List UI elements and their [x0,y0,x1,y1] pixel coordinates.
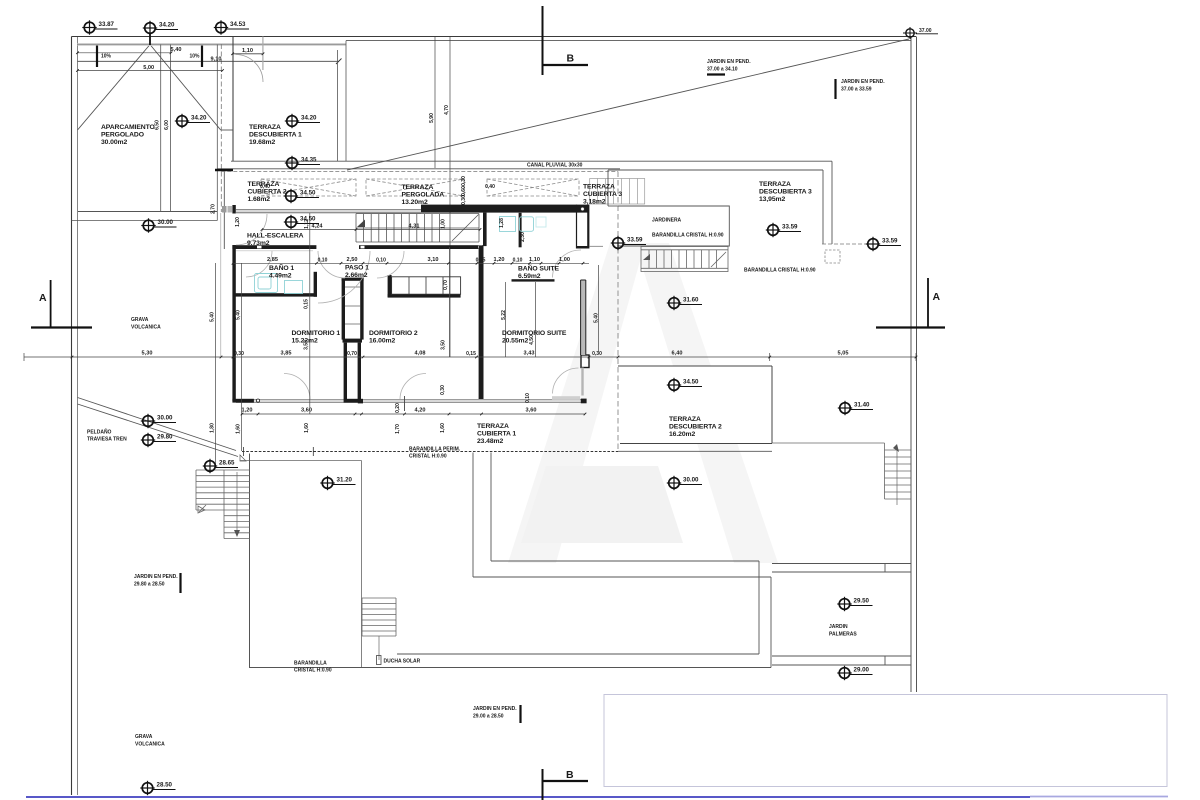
bano1 fixtures cyan [255,274,303,294]
suite west wall [479,246,484,402]
svg-text:28.65: 28.65 [219,460,235,467]
benchmark 28.50 [140,781,175,795]
svg-text:BAÑO SUITE: BAÑO SUITE [518,264,559,273]
svg-text:CANAL PLUVIAL 30x30: CANAL PLUVIAL 30x30 [527,163,583,169]
svg-text:1,60: 1,60 [304,423,310,433]
benchmark 30.00 pool [667,476,702,490]
svg-text:TRAVIESA TREN: TRAVIESA TREN [87,437,127,443]
svg-text:BARANDILLA CRISTAL H:0.90: BARANDILLA CRISTAL H:0.90 [744,268,816,274]
svg-text:31.60: 31.60 [683,297,699,304]
benchmark 31.40 [838,401,873,415]
door arcs south [284,368,579,399]
svg-text:DESCUBIERTA 2: DESCUBIERTA 2 [669,424,722,431]
svg-text:33.87: 33.87 [99,21,115,28]
svg-text:5,00: 5,00 [143,65,154,71]
terraza cubierta2 west line [223,171,225,249]
svg-text:33.59: 33.59 [882,238,898,245]
dashed level line right [822,243,869,245]
svg-text:BARANDILLA CRISTAL H:0.90: BARANDILLA CRISTAL H:0.90 [652,233,724,239]
bano suite vanity bar [512,279,555,281]
svg-text:1,60: 1,60 [236,424,242,434]
dorm2 wardrobe [388,275,461,298]
jardinera stair [641,247,728,272]
paso wardrobe [342,278,364,400]
svg-text:9.73m2: 9.73m2 [247,240,270,247]
bano1 partition east [314,272,317,297]
door arcs interior [246,251,404,303]
suite east wall [577,205,604,249]
east boundary stair [772,443,911,505]
svg-text:0,10: 0,10 [525,393,531,403]
site inner top line [346,40,911,42]
dashed site axis vertical [220,44,222,212]
svg-text:29.50: 29.50 [854,598,870,605]
svg-text:0,15: 0,15 [304,299,310,309]
svg-text:TERRAZA: TERRAZA [249,124,281,131]
svg-text:4.49m2: 4.49m2 [269,273,292,280]
svg-text:JARDIN: JARDIN [829,624,848,630]
svg-text:34.53: 34.53 [230,21,246,28]
lower-left stair [196,470,250,539]
svg-text:BARANDILLA: BARANDILLA [294,661,327,667]
benchmark 33.59 mid [766,223,801,237]
svg-text:3,85: 3,85 [281,351,292,357]
svg-text:1.68m2: 1.68m2 [248,196,271,203]
svg-text:34.35: 34.35 [301,157,317,164]
terrace step edge [241,460,362,462]
svg-text:6.59m2: 6.59m2 [518,273,541,280]
svg-text:33.59: 33.59 [782,224,798,231]
ducha solar [377,656,382,665]
suite south-east door arc upper [553,250,582,278]
svg-text:PELDAÑO: PELDAÑO [87,429,112,436]
svg-text:VOLCANICA: VOLCANICA [131,325,161,331]
svg-text:PASO 1: PASO 1 [345,265,369,272]
suite door leaf [581,368,583,396]
svg-text:16.20m2: 16.20m2 [669,431,695,438]
svg-text:TERRAZA: TERRAZA [669,416,701,423]
svg-text:DORMITORIO 2: DORMITORIO 2 [369,330,418,337]
svg-text:6,40: 6,40 [672,351,683,357]
svg-text:29.80: 29.80 [157,434,173,441]
railing dashed terraza cubierta 1 [242,451,618,453]
watermark logo A [508,243,778,563]
mid bottom stair [362,598,396,660]
svg-text:1,00: 1,00 [441,219,447,229]
svg-text:0,30: 0,30 [461,176,467,186]
benchmark 34.50 terraza cub2 [284,189,319,203]
svg-text:30.00m2: 30.00m2 [101,139,127,146]
svg-text:34.50: 34.50 [300,190,316,197]
top dim row 5,00 [78,70,223,72]
svg-text:1,12: 1,12 [304,219,310,229]
pergola hatch box 1 [261,179,579,196]
west outer wall [232,245,235,401]
bedrooms north wall segment A [232,245,316,249]
dim extension line 5,30 [220,213,222,357]
svg-text:5,40: 5,40 [236,310,242,320]
benchmark 34.20 terraza1 [285,114,320,128]
svg-text:4,20: 4,20 [415,408,426,414]
bano suite partition [519,213,522,248]
benchmark 34.35 [285,156,320,170]
svg-text:1,60: 1,60 [440,423,446,433]
svg-text:30.00: 30.00 [158,219,174,226]
main interior stair [356,214,479,242]
svg-text:13,95m2: 13,95m2 [759,196,785,203]
site boundary top [72,36,917,38]
svg-text:GRAVA: GRAVA [131,317,149,323]
svg-text:PERGOLADA: PERGOLADA [402,192,445,199]
top dim row 9,10 [78,60,339,62]
svg-text:JARDIN EN PEND.: JARDIN EN PEND. [707,59,751,65]
terraza descubierta1 east double [337,50,339,161]
svg-text:TERRAZA: TERRAZA [759,181,791,188]
svg-text:JARDIN EN PEND.: JARDIN EN PEND. [134,574,178,580]
svg-text:31.20: 31.20 [337,477,353,484]
svg-text:0,15: 0,15 [466,351,476,357]
benchmark 31.20 [320,476,355,490]
svg-text:16.00m2: 16.00m2 [369,338,395,345]
svg-text:28.50: 28.50 [157,782,173,789]
svg-text:33.59: 33.59 [627,237,643,244]
svg-text:0,70: 0,70 [347,351,357,357]
svg-text:5,40: 5,40 [594,313,600,323]
svg-text:CUBIERTA 3: CUBIERTA 3 [583,191,622,198]
svg-text:TERRAZA: TERRAZA [583,184,615,191]
svg-text:CRISTAL H:0.90: CRISTAL H:0.90 [409,454,447,460]
terrace edge solid right [618,450,772,452]
site boundary right (double) [910,37,912,692]
jardin palmeras block [772,564,911,666]
svg-text:23.48m2: 23.48m2 [477,438,503,445]
carport top strip line [78,43,347,46]
svg-text:BARANDILLA PERIM.: BARANDILLA PERIM. [409,447,461,453]
svg-text:0,30: 0,30 [440,385,446,395]
title block [604,695,1167,787]
suite east wall lower [581,280,586,355]
svg-text:DESCUBIERTA 3: DESCUBIERTA 3 [759,189,812,196]
gate door arc terraza descubierta 1 [262,37,264,71]
svg-text:DESCUBIERTA 1: DESCUBIERTA 1 [249,132,302,139]
svg-text:19.68m2: 19.68m2 [249,139,275,146]
benchmark 34.50 hall [284,215,319,229]
svg-text:0,30: 0,30 [592,351,602,357]
svg-text:10%: 10% [101,54,112,60]
section marker A right [927,278,929,328]
small steps grid terraza cubierta 3 [590,179,645,205]
bano1 south wall [233,293,317,296]
terraza descubierta 2 outline [619,367,772,444]
benchmark 30.00 carport [141,218,176,232]
svg-text:0,10: 0,10 [513,257,523,263]
svg-text:3,10: 3,10 [428,257,439,263]
bedrooms north wall segment B [359,245,484,249]
svg-text:4,08: 4,08 [415,351,426,357]
svg-text:29.00: 29.00 [854,667,870,674]
pergola hatch box 2 [366,179,464,196]
benchmark 29.80 [141,433,176,447]
section marker A left [50,280,52,328]
svg-text:B: B [566,769,574,781]
svg-text:0,70: 0,70 [443,280,449,290]
10% slope marker bars [96,46,98,68]
svg-text:9,10: 9,10 [211,56,222,62]
svg-text:JARDINERA: JARDINERA [652,218,682,224]
svg-text:6,50: 6,50 [155,120,161,130]
svg-text:3,18m2: 3,18m2 [583,199,606,206]
svg-text:1,80: 1,80 [210,423,216,433]
stair right wall thick [483,213,487,247]
top dim row 5,40 / 1,10 [78,52,172,54]
svg-text:B: B [567,53,575,65]
svg-text:PERGOLADO: PERGOLADO [101,132,144,139]
dim tick slashes [71,52,918,416]
svg-text:APARCAMIENTO: APARCAMIENTO [101,124,155,131]
suite door jamb box [581,355,589,368]
svg-text:DORMITORIO 1: DORMITORIO 1 [292,330,341,337]
svg-text:5,40: 5,40 [210,312,216,322]
overall dim chain row [24,353,916,361]
svg-text:3,50: 3,50 [441,340,447,350]
sloping garden line top [347,39,909,170]
svg-text:2,50: 2,50 [347,257,358,263]
svg-text:A: A [39,292,47,304]
svg-text:A: A [933,291,941,303]
terraza descubierta 3 outline [608,161,832,244]
svg-text:0,15: 0,15 [476,257,486,263]
svg-text:30.00: 30.00 [157,415,173,422]
svg-text:37.00: 37.00 [919,28,932,34]
svg-text:1,00: 1,00 [559,257,570,263]
svg-text:4,70: 4,70 [444,105,450,115]
svg-text:CUBIERTA 1: CUBIERTA 1 [477,431,516,438]
svg-text:5,30: 5,30 [142,351,153,357]
svg-text:34.20: 34.20 [159,22,175,29]
dim texts top [101,47,253,71]
pergola eave connector [221,129,233,131]
carport pergola right diagonal [150,45,221,131]
hall dim row 4,24 4,31 [262,229,480,231]
svg-text:0,10: 0,10 [318,257,328,263]
svg-text:20.55m2: 20.55m2 [502,338,528,345]
svg-text:4,50: 4,50 [529,335,535,345]
svg-text:3,50: 3,50 [304,340,310,350]
svg-text:3,43: 3,43 [524,351,535,357]
pergola hatch box 3 [487,179,579,196]
svg-text:TERRAZA: TERRAZA [477,423,509,430]
svg-text:VOLCANICA: VOLCANICA [135,742,165,748]
benchmark 31.60 [667,296,702,310]
svg-text:DUCHA SOLAR: DUCHA SOLAR [384,659,421,665]
benchmark 33.59 jardinera [611,236,646,250]
svg-text:TERRAZA: TERRAZA [402,184,434,191]
carport pergola left diagonal [78,45,151,131]
svg-text:0,10: 0,10 [376,257,386,263]
svg-text:1,70: 1,70 [395,424,401,434]
svg-text:0,30: 0,30 [461,195,467,205]
svg-text:HALL-ESCALERA: HALL-ESCALERA [247,233,304,240]
svg-text:1,20: 1,20 [235,217,241,227]
svg-text:3,60: 3,60 [526,408,537,414]
svg-text:5,90: 5,90 [429,113,435,123]
lower garden terrace left edge [249,454,251,669]
svg-text:0,40: 0,40 [260,184,270,190]
south wall wardrobe jamb [344,399,362,403]
dim verticals 5,90 4,70 [434,37,436,168]
benchmark 37.00 corner [903,27,938,39]
benchmark 33.87 [82,20,117,34]
svg-text:13.20m2: 13.20m2 [402,199,428,206]
svg-text:10%: 10% [189,54,200,60]
svg-text:0,30: 0,30 [234,351,244,357]
svg-text:BAÑO 1: BAÑO 1 [269,263,294,272]
svg-text:JARDIN EN PEND.: JARDIN EN PEND. [473,706,517,712]
benchmark 29.50 [837,597,872,611]
suite north wall thick [421,205,589,213]
pool deck walkway [397,453,771,668]
svg-text:0,60: 0,60 [461,186,467,196]
svg-text:29.00 a 28.50: 29.00 a 28.50 [473,714,504,720]
benchmark 28.65 [203,459,238,473]
svg-text:0,40: 0,40 [485,184,495,190]
svg-text:37.00 a 34.10: 37.00 a 34.10 [707,67,738,73]
benchmark 30.00 peldano [141,414,176,428]
dim verticals interior [216,213,599,466]
section marker B bottom [542,769,544,800]
benchmark 34.20 carport [175,114,210,128]
svg-text:1,10: 1,10 [242,48,253,54]
bottom blue line [26,796,1030,798]
benchmark 34.20 top [143,21,178,35]
site boundary left (double) [71,37,73,796]
benchmark 33.59 right [866,237,901,251]
hall north glass band [222,206,421,213]
svg-text:GRAVA: GRAVA [135,734,153,740]
svg-text:34.50: 34.50 [683,379,699,386]
carport bottom lines [78,211,217,213]
bano suite fixtures cyan [500,217,547,232]
svg-text:3,60: 3,60 [301,408,312,414]
svg-text:5,05: 5,05 [838,351,849,357]
svg-text:2.66m2: 2.66m2 [345,272,368,279]
lower garden terrace bottom [250,667,772,669]
svg-text:0,20: 0,20 [395,403,401,413]
svg-text:34.20: 34.20 [191,115,207,122]
rain pipe dashed box [825,250,840,263]
svg-text:4,31: 4,31 [409,223,420,229]
hall west wall and door [232,205,235,214]
benchmark 34.50 terraza desc2 [667,378,702,392]
terrace dim row y414 [242,413,585,415]
svg-text:PALMERAS: PALMERAS [829,632,857,638]
svg-text:6,00: 6,00 [164,120,170,130]
benchmark 29.00 [837,666,872,680]
south wall glass band bedrooms [232,355,589,411]
svg-text:34.20: 34.20 [301,115,317,122]
svg-text:31.40: 31.40 [854,402,870,409]
south wall mid tick [404,396,406,411]
svg-text:30.00: 30.00 [683,477,699,484]
benchmark 34.53 [214,20,249,34]
jardinera box [617,206,729,246]
terraza descubierta1 west wall [232,37,234,161]
south wall left jamb [232,399,254,403]
svg-text:4,24: 4,24 [312,223,324,229]
svg-text:2,30: 2,30 [520,232,526,242]
svg-text:37.00 a 33.59: 37.00 a 33.59 [841,87,872,93]
peldano traviesa diagonals [78,398,237,451]
carport posts verticals [160,45,162,212]
svg-text:5,22: 5,22 [501,310,507,320]
svg-text:CRISTAL H:0.90: CRISTAL H:0.90 [294,668,332,674]
svg-text:JARDIN EN PEND.: JARDIN EN PEND. [841,79,885,85]
interior dim row y263 [233,262,590,264]
house north face line [231,160,832,162]
svg-text:29.80 a 28.50: 29.80 a 28.50 [134,582,165,588]
svg-text:2,70: 2,70 [211,204,217,214]
section marker B top [542,6,544,75]
carport right edge [216,45,218,221]
svg-text:2,85: 2,85 [267,257,278,263]
svg-text:1,28: 1,28 [499,218,505,228]
dashed axis vertical right of house [617,172,619,453]
canal pluvial lines [217,168,620,170]
